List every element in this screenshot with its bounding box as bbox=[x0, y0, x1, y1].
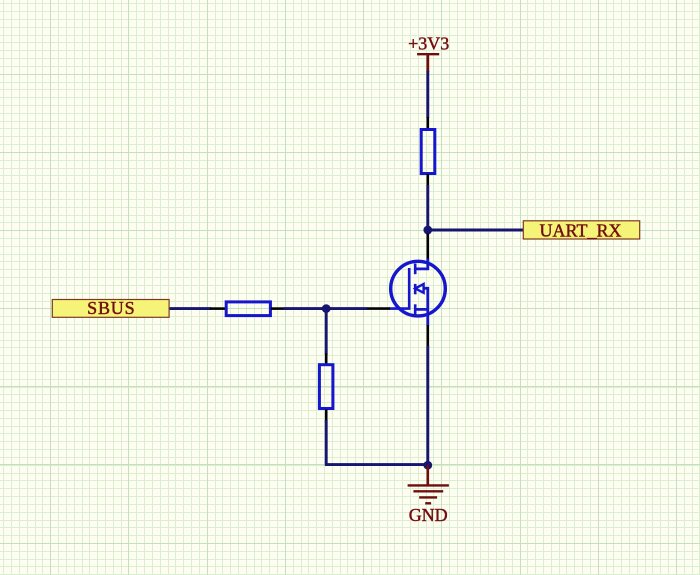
port SBUS bbox=[52, 298, 169, 318]
pin R3 bottom bbox=[325, 410, 328, 422]
node A junction bbox=[423, 226, 432, 235]
transistor Q1 drain lead bbox=[415, 259, 428, 269]
svg-text:UART_RX: UART_RX bbox=[540, 221, 622, 241]
wire R3 to node C bbox=[326, 420, 428, 465]
transistor Q1 source channel tick bbox=[414, 304, 417, 314]
pin R3 top bbox=[325, 354, 328, 365]
wire +3V3 to R1 bbox=[426, 71, 429, 118]
pin R2 right bbox=[271, 307, 284, 310]
wire R1 to node A bbox=[426, 185, 429, 230]
wire Q1 source to node C bbox=[426, 346, 429, 465]
transistor Q1 MOSFET body circle bbox=[391, 261, 446, 316]
svg-text:+3V3: +3V3 bbox=[408, 34, 449, 54]
resistor R2 bbox=[226, 302, 270, 316]
wire SBUS to R2 bbox=[170, 307, 211, 310]
node B junction bbox=[322, 304, 331, 313]
pin R1 bottom bbox=[426, 174, 429, 186]
transistor Q1 body arrow bbox=[415, 284, 423, 293]
wire node A to UART_RX port bbox=[428, 229, 523, 232]
transistor Q1 drain channel tick bbox=[414, 264, 417, 275]
node C junction bbox=[423, 461, 432, 470]
svg-text:GND: GND bbox=[409, 505, 448, 525]
port UART_RX bbox=[523, 221, 639, 241]
pin Q1 drain bbox=[426, 234, 429, 261]
power +3V3 label bbox=[408, 34, 449, 54]
pin R1 top bbox=[426, 117, 429, 129]
transistor Q1 gate plate bbox=[389, 268, 409, 309]
wire node B to R3 bbox=[325, 309, 328, 355]
svg-text:SBUS: SBUS bbox=[87, 298, 135, 318]
resistor R3 bbox=[319, 365, 333, 409]
resistor R1 bbox=[421, 130, 435, 174]
wire R2 to node B and gate bbox=[284, 307, 368, 310]
pin R2 left bbox=[210, 307, 226, 310]
power +3V3 bar symbol bbox=[417, 54, 439, 72]
transistor Q1 body-source lead bbox=[415, 288, 428, 325]
pin Q1 gate bbox=[367, 307, 391, 310]
ground GND label bbox=[409, 505, 448, 525]
transistor Q1 body channel tick bbox=[414, 284, 417, 294]
ground symbol bbox=[408, 465, 449, 503]
pin Q1 source bbox=[426, 325, 429, 347]
